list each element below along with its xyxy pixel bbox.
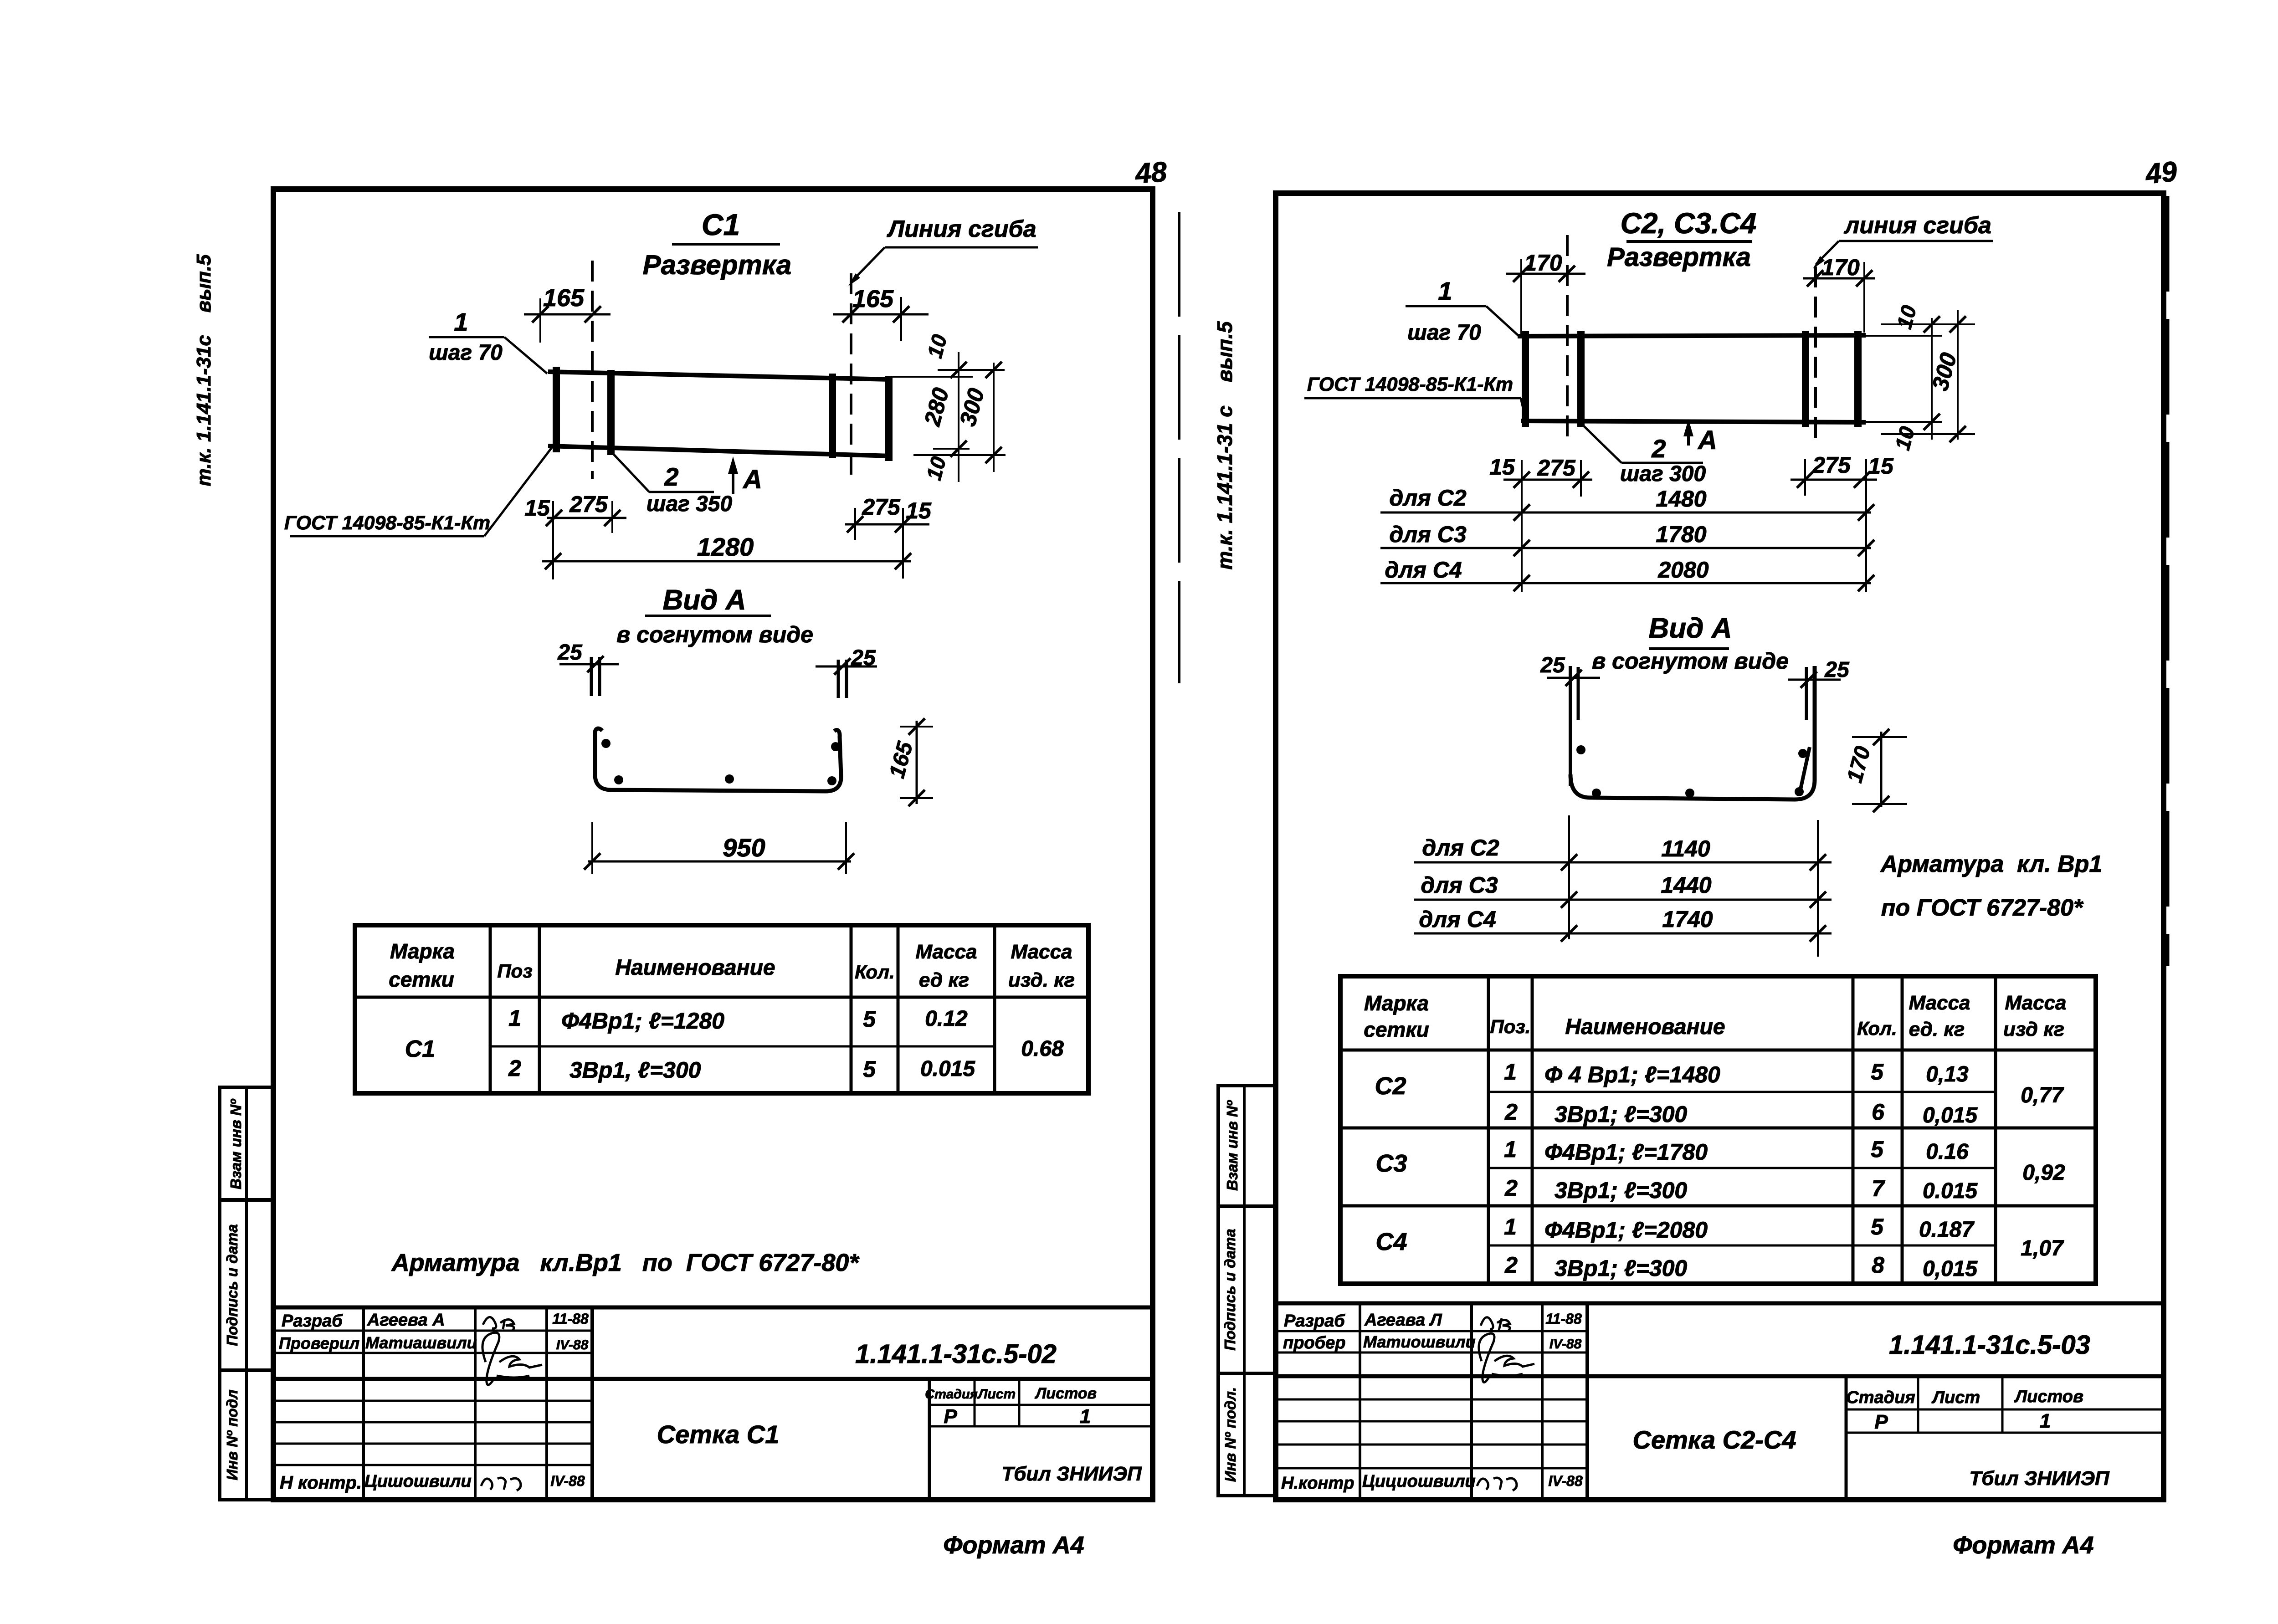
svg-text:Матиошвили: Матиошвили xyxy=(1363,1332,1476,1351)
svg-text:2: 2 xyxy=(508,1055,521,1081)
svg-text:Сетка С1: Сетка С1 xyxy=(657,1420,780,1449)
fold line left dashed xyxy=(1566,235,1569,441)
svg-text:Р: Р xyxy=(944,1405,957,1428)
svg-text:275: 275 xyxy=(862,494,901,520)
ext line left (shared with upper для dims) xyxy=(1521,460,1523,592)
sub-row dividers xyxy=(1488,1091,1996,1093)
extension line shared right xyxy=(902,508,904,579)
svg-text:2: 2 xyxy=(1504,1175,1518,1201)
fold line right (dashed) xyxy=(850,273,852,479)
signature 1 xyxy=(1481,1317,1510,1331)
svg-text:С2, С3.С4: С2, С3.С4 xyxy=(1621,207,1757,240)
mesh development: bottom chord xyxy=(1521,421,1866,422)
svg-text:0,77: 0,77 xyxy=(2021,1083,2064,1107)
svg-text:1780: 1780 xyxy=(1656,522,1706,547)
wire cross-section dots xyxy=(601,739,611,748)
svg-text:8: 8 xyxy=(1872,1252,1884,1278)
label 1 underline xyxy=(429,336,504,338)
svg-text:Масса: Масса xyxy=(2005,992,2066,1014)
svg-text:шаг 70: шаг 70 xyxy=(429,341,503,365)
line C4 bent xyxy=(1414,932,1832,935)
staff row lines xyxy=(273,1330,592,1332)
svg-text:А: А xyxy=(742,465,762,494)
svg-text:Разраб: Разраб xyxy=(282,1311,343,1331)
svg-text:25: 25 xyxy=(1824,658,1850,682)
svg-text:0.68: 0.68 xyxy=(1021,1037,1064,1061)
dim 170 bent height xyxy=(1880,732,1883,807)
svg-text:сетки: сетки xyxy=(389,968,454,991)
svg-text:1280: 1280 xyxy=(697,533,754,561)
title block top line xyxy=(273,1306,1153,1310)
ext line right short xyxy=(1804,459,1806,496)
svg-text:для С4: для С4 xyxy=(1419,907,1496,932)
view arrow A xyxy=(732,465,734,494)
cross wire (pos 2) left 2 xyxy=(607,370,615,455)
svg-text:Ф 4 Вр1; ℓ=1480: Ф 4 Вр1; ℓ=1480 xyxy=(1544,1062,1720,1087)
svg-text:0.015: 0.015 xyxy=(1923,1179,1978,1203)
margin stamp column (left of frame) xyxy=(220,1087,273,1500)
svg-text:Масса: Масса xyxy=(1011,941,1072,963)
dimension 165 left: dim line xyxy=(524,313,611,316)
leader from label 2 to mesh xyxy=(611,451,649,492)
svg-text:IV-88: IV-88 xyxy=(550,1473,585,1489)
svg-text:2: 2 xyxy=(664,462,678,491)
dim 950 line xyxy=(588,861,851,863)
ticks xyxy=(1924,316,1940,333)
title underline xyxy=(1626,240,1752,243)
svg-text:для С3: для С3 xyxy=(1421,872,1498,898)
svg-text:Линия сгиба: Линия сгиба xyxy=(886,216,1036,242)
svg-text:1140: 1140 xyxy=(1661,836,1710,861)
dim 25 right: wire stubs xyxy=(837,660,840,698)
svg-text:1740: 1740 xyxy=(1662,907,1713,932)
cross wire right 2 xyxy=(1854,331,1862,427)
svg-text:2080: 2080 xyxy=(1657,557,1708,583)
svg-text:170: 170 xyxy=(1821,255,1860,280)
table sub-row divider xyxy=(490,1045,995,1048)
svg-text:Н контр.: Н контр. xyxy=(280,1473,362,1493)
group dividers xyxy=(1340,1127,2096,1130)
svg-text:для С4: для С4 xyxy=(1385,557,1462,583)
svg-text:А: А xyxy=(1697,425,1717,455)
svg-text:170: 170 xyxy=(1842,743,1875,785)
svg-text:шаг 350: шаг 350 xyxy=(646,492,733,516)
svg-text:шаг 300: шаг 300 xyxy=(1620,462,1706,486)
leader to mesh bottom-left xyxy=(1521,398,1526,420)
svg-text:165: 165 xyxy=(885,738,918,780)
svg-text:Вид А: Вид А xyxy=(663,584,746,616)
svg-text:Агеава Л: Агеава Л xyxy=(1364,1311,1442,1330)
svg-text:Листов: Листов xyxy=(2014,1387,2083,1406)
bent mesh U-profile C2-C4: left arm doubled (hook) xyxy=(1569,666,1572,786)
svg-text:Развертка: Развертка xyxy=(1607,242,1751,272)
svg-text:Арматура кл. Вр1: Арматура кл. Вр1 xyxy=(1880,851,2103,877)
extension line 275 right short xyxy=(854,508,856,540)
fold line left (dashed) xyxy=(591,261,594,479)
svg-text:Цишошвили: Цишошвили xyxy=(364,1472,472,1491)
svg-text:0,92: 0,92 xyxy=(2022,1161,2065,1185)
svg-text:280: 280 xyxy=(919,385,954,429)
svg-text:в согнутом виде: в согнутом виде xyxy=(1592,648,1789,674)
view A underline xyxy=(645,615,771,617)
svg-text:ГОСТ 14098-85-К1-Кт: ГОСТ 14098-85-К1-Кт xyxy=(1307,374,1513,395)
svg-text:0,015: 0,015 xyxy=(1923,1103,1978,1127)
dim line 1280 xyxy=(542,560,911,563)
svg-text:3Вр1; ℓ=300: 3Вр1; ℓ=300 xyxy=(1555,1178,1687,1203)
svg-text:25: 25 xyxy=(557,640,583,665)
svg-text:Инв Nº подл: Инв Nº подл xyxy=(224,1389,241,1480)
svg-text:Сетка С2-С4: Сетка С2-С4 xyxy=(1633,1425,1796,1454)
svg-text:10: 10 xyxy=(1890,424,1919,452)
mesh C1 development: bottom chord wire xyxy=(548,446,891,456)
svg-text:49: 49 xyxy=(2143,156,2179,190)
vertical dim line 300 xyxy=(1957,310,1959,440)
svg-text:1,07: 1,07 xyxy=(2021,1236,2064,1260)
svg-text:Развертка: Развертка xyxy=(643,250,792,280)
svg-text:2: 2 xyxy=(1651,434,1666,463)
svg-text:ГОСТ 14098-85-К1-Кт: ГОСТ 14098-85-К1-Кт xyxy=(284,512,490,534)
dimension 165 right: dim line xyxy=(833,313,929,316)
линия сгиба underline xyxy=(1839,240,1993,242)
title block page 49: top line xyxy=(1276,1301,2164,1306)
svg-text:шаг 70: шаг 70 xyxy=(1407,321,1481,345)
svg-text:5: 5 xyxy=(1871,1137,1884,1162)
svg-text:11-88: 11-88 xyxy=(1545,1311,1582,1327)
svg-text:Подпись и дата: Подпись и дата xyxy=(1221,1229,1238,1351)
ext line right long (shared) xyxy=(1865,459,1867,592)
line C2 bent xyxy=(1414,861,1832,864)
svg-text:Агеева А: Агеева А xyxy=(367,1311,445,1330)
svg-text:5: 5 xyxy=(1871,1059,1884,1085)
dim line 275 left xyxy=(547,517,626,519)
mesh C2-C4 development: top chord xyxy=(1518,335,1866,336)
columns xyxy=(1359,1303,1361,1500)
svg-text:Формат А4: Формат А4 xyxy=(943,1532,1084,1559)
mesh C1 development: top chord wire xyxy=(548,372,891,379)
svg-text:15: 15 xyxy=(906,498,932,523)
view arrow A xyxy=(1687,428,1690,446)
page 49 torn edge dashed line xyxy=(2166,196,2170,966)
wire cross-section dots xyxy=(1576,745,1585,754)
signature 3 xyxy=(481,1478,521,1491)
table header line xyxy=(355,996,1088,999)
svg-text:1: 1 xyxy=(1504,1214,1517,1240)
svg-text:Матиашвили: Матиашвили xyxy=(365,1333,477,1352)
ext line 170 left xyxy=(1520,259,1522,337)
svg-text:48: 48 xyxy=(1134,156,1168,190)
svg-text:1: 1 xyxy=(1080,1405,1091,1428)
svg-text:IV-88: IV-88 xyxy=(556,1337,589,1352)
svg-text:Масса: Масса xyxy=(1909,992,1970,1014)
margin stamp column page 49 xyxy=(1218,1086,1276,1496)
dim 950: extension lines xyxy=(591,822,593,874)
leader from label 1 to mesh corner xyxy=(504,337,547,374)
title block main divider xyxy=(273,1377,1153,1381)
svg-text:Вид А: Вид А xyxy=(1649,613,1732,644)
svg-text:Тбил ЗНИИЭП: Тбил ЗНИИЭП xyxy=(1001,1463,1142,1485)
svg-text:Ф4Вр1; ℓ=1280: Ф4Вр1; ℓ=1280 xyxy=(561,1008,724,1034)
leader from label 2 xyxy=(1582,425,1621,463)
vertical dim line short xyxy=(1931,318,1933,440)
svg-text:1.141.1-31с.5-03: 1.141.1-31с.5-03 xyxy=(1889,1330,2090,1360)
staff rows xyxy=(1276,1330,1587,1332)
page 48 torn edge dashed line xyxy=(1178,212,1180,683)
svg-text:11-88: 11-88 xyxy=(552,1311,589,1327)
cross wire right 1 xyxy=(1802,331,1809,427)
svg-text:1: 1 xyxy=(1438,277,1452,305)
svg-text:в согнутом виде: в согнутом виде xyxy=(616,622,813,647)
svg-text:2: 2 xyxy=(1504,1099,1518,1125)
title C1 underline xyxy=(672,243,780,246)
cross wire (pos 2) end left 1 xyxy=(553,367,560,452)
svg-text:3Вр1, ℓ=300: 3Вр1, ℓ=300 xyxy=(569,1057,701,1083)
svg-text:165: 165 xyxy=(852,285,894,313)
dim 165 ticks xyxy=(900,726,933,727)
svg-text:С1: С1 xyxy=(405,1036,435,1062)
svg-text:С4: С4 xyxy=(1375,1228,1407,1255)
ext long line from mesh bottom xyxy=(913,454,1006,456)
svg-text:Наименование: Наименование xyxy=(615,956,775,980)
title block column lines xyxy=(362,1307,365,1500)
cross wire (pos 2) right 1 xyxy=(829,374,836,458)
svg-text:1440: 1440 xyxy=(1661,872,1711,898)
right side dims: ext from mesh top xyxy=(1866,335,1942,337)
линия сгиба underline xyxy=(885,246,1038,249)
svg-text:Поз.: Поз. xyxy=(1490,1016,1531,1037)
svg-text:0,13: 0,13 xyxy=(1926,1062,1969,1086)
svg-text:Взам инв Nº: Взам инв Nº xyxy=(1224,1100,1241,1191)
svg-text:Листов: Листов xyxy=(1034,1385,1097,1402)
svg-text:Ф4Вр1; ℓ=1780: Ф4Вр1; ℓ=1780 xyxy=(1544,1139,1708,1165)
signature 3 xyxy=(1477,1478,1517,1491)
dim 25 left: dim line xyxy=(559,663,619,666)
svg-text:5: 5 xyxy=(1871,1214,1884,1240)
signature 2 (large flourish) xyxy=(482,1332,542,1385)
dim line 275 right xyxy=(845,523,929,526)
svg-text:для С3: для С3 xyxy=(1389,522,1466,547)
svg-text:0.16: 0.16 xyxy=(1926,1140,1969,1164)
leader to mesh top-left xyxy=(1486,306,1519,336)
svg-text:165: 165 xyxy=(543,284,585,312)
svg-text:IV-88: IV-88 xyxy=(1548,1473,1583,1489)
bent mesh U-profile C1 xyxy=(595,728,841,791)
svg-text:1: 1 xyxy=(1504,1137,1517,1162)
svg-text:300: 300 xyxy=(955,385,990,429)
svg-text:Марка: Марка xyxy=(1364,991,1429,1015)
svg-text:1: 1 xyxy=(454,307,468,336)
svg-text:Арматура кл.Вр1 по ГОСТ 6: Арматура кл.Вр1 по ГОСТ 6727-80* xyxy=(391,1249,860,1276)
svg-text:Поз: Поз xyxy=(497,960,532,982)
svg-text:5: 5 xyxy=(863,1006,876,1032)
svg-text:С2: С2 xyxy=(1375,1072,1406,1100)
dim 25 right: dim line xyxy=(816,666,877,668)
cross wire left 1 xyxy=(1522,331,1529,427)
svg-text:Проверил: Проверил xyxy=(279,1334,359,1352)
ГОСТ label underline xyxy=(290,535,484,538)
page 49 frame xyxy=(1276,193,2164,1500)
extension line 275 left short xyxy=(611,501,613,533)
ext line 170 right xyxy=(1863,262,1865,333)
extension line shared by 275/1280 left xyxy=(552,501,554,579)
svg-text:IV-88: IV-88 xyxy=(1549,1337,1582,1352)
line C2 xyxy=(1380,512,1871,514)
vertical dim line 300 xyxy=(993,363,995,472)
стадия/лист columns xyxy=(928,1379,931,1500)
svg-text:Ф4Вр1; ℓ=2080: Ф4Вр1; ℓ=2080 xyxy=(1544,1217,1708,1243)
dimension 165 right: extension line xyxy=(900,297,902,341)
svg-text:Масса: Масса xyxy=(915,941,977,963)
svg-text:Лист: Лист xyxy=(977,1387,1016,1402)
line C3 xyxy=(1380,547,1871,549)
стадия/лист columns page49 xyxy=(1845,1376,1848,1500)
svg-text:Марка: Марка xyxy=(390,939,455,963)
svg-text:25: 25 xyxy=(1540,653,1565,677)
svg-text:Н.контр: Н.контр xyxy=(1281,1474,1354,1493)
svg-text:сетки: сетки xyxy=(1364,1018,1429,1041)
right side dims: ext line from mesh top xyxy=(891,376,973,378)
svg-text:Формат А4: Формат А4 xyxy=(1953,1532,2093,1559)
svg-text:0.187: 0.187 xyxy=(1919,1218,1975,1242)
svg-text:0.015: 0.015 xyxy=(920,1057,975,1081)
svg-text:ед. кг: ед. кг xyxy=(1909,1018,1965,1040)
line C4 xyxy=(1380,582,1871,584)
svg-text:0.12: 0.12 xyxy=(925,1007,968,1031)
tick line 10 top xyxy=(1881,323,1975,325)
svg-text:275: 275 xyxy=(1537,455,1576,481)
tick slashes on vertical dims xyxy=(950,362,967,378)
vertical dim line 280 xyxy=(958,352,959,482)
svg-text:2: 2 xyxy=(1504,1252,1518,1278)
signature 1 xyxy=(483,1317,514,1331)
svg-text:275: 275 xyxy=(1812,452,1851,478)
bent widths: ext lines xyxy=(1568,815,1570,939)
specification table C2-C4 xyxy=(1340,976,2096,1284)
svg-text:1.141.1-31с.5-02: 1.141.1-31с.5-02 xyxy=(855,1339,1057,1369)
cross wire left 2 xyxy=(1577,331,1585,427)
svg-text:3Вр1; ℓ=300: 3Вр1; ℓ=300 xyxy=(1555,1255,1687,1281)
svg-text:0,015: 0,015 xyxy=(1923,1257,1978,1281)
svg-text:3Вр1; ℓ=300: 3Вр1; ℓ=300 xyxy=(1555,1101,1687,1127)
svg-text:Подпись и дата: Подпись и дата xyxy=(224,1224,241,1346)
cross wire (pos 2) end right 2 xyxy=(885,376,893,461)
svg-text:Цициошвили: Цициошвили xyxy=(1362,1472,1476,1491)
right arm inner line (hook) xyxy=(1805,667,1808,720)
fold line right dashed xyxy=(1814,266,1817,441)
page 48 frame xyxy=(273,189,1153,1500)
signature 2 xyxy=(1479,1333,1534,1382)
U-profile bottom and corners xyxy=(1570,666,1815,799)
svg-text:Взам инв Nº: Взам инв Nº xyxy=(227,1098,244,1189)
label 2 underline xyxy=(649,491,714,493)
svg-text:С3: С3 xyxy=(1375,1150,1407,1177)
svg-text:т.к. 1.141.1-31с вып.5: т.к. 1.141.1-31с вып.5 xyxy=(193,254,215,487)
svg-text:линия сгиба: линия сгиба xyxy=(1843,212,1991,239)
svg-text:Наименование: Наименование xyxy=(1565,1015,1725,1039)
dimension 165 left: extension line xyxy=(539,298,541,343)
svg-text:С1: С1 xyxy=(702,208,740,241)
svg-text:Кол.: Кол. xyxy=(855,961,895,983)
leader from ГОСТ label to mesh corner xyxy=(484,446,553,536)
svg-text:пробер: пробер xyxy=(1283,1333,1346,1352)
main divider xyxy=(1276,1374,2164,1378)
svg-text:10: 10 xyxy=(922,454,951,482)
svg-text:275: 275 xyxy=(569,492,608,517)
svg-text:950: 950 xyxy=(723,833,765,862)
svg-text:Р: Р xyxy=(1874,1411,1888,1433)
svg-text:1: 1 xyxy=(2040,1410,2051,1432)
dim 165 bent height: vertical line xyxy=(916,721,918,804)
dim 25 left: wire stubs xyxy=(590,657,593,696)
tick line 10 bottom xyxy=(1881,433,1975,435)
svg-text:по ГОСТ 6727-80*: по ГОСТ 6727-80* xyxy=(1881,895,2084,921)
svg-text:для С2: для С2 xyxy=(1389,485,1466,511)
svg-text:15: 15 xyxy=(524,495,550,521)
svg-text:Стадия: Стадия xyxy=(1846,1388,1915,1407)
svg-text:изд кг: изд кг xyxy=(2003,1018,2064,1040)
svg-text:изд. кг: изд. кг xyxy=(1008,969,1075,991)
svg-text:ед кг: ед кг xyxy=(919,969,969,991)
svg-text:170: 170 xyxy=(1524,250,1562,276)
tick line 10 top xyxy=(938,369,1005,371)
tick line bottom short xyxy=(933,448,970,450)
svg-text:1: 1 xyxy=(1504,1059,1517,1085)
svg-text:Кол.: Кол. xyxy=(1857,1018,1897,1039)
header line xyxy=(1340,1049,2096,1052)
линия сгиба leader xyxy=(1816,241,1839,264)
svg-text:Разраб: Разраб xyxy=(1284,1311,1345,1331)
svg-text:1480: 1480 xyxy=(1656,486,1706,512)
svg-text:15: 15 xyxy=(1489,454,1515,480)
линия сгиба leader xyxy=(852,247,885,282)
specification table C1 xyxy=(355,925,1088,1093)
svg-text:6: 6 xyxy=(1872,1099,1885,1125)
svg-text:1: 1 xyxy=(508,1005,521,1031)
right arm inner bend xyxy=(1800,747,1810,791)
svg-text:10: 10 xyxy=(1892,302,1921,331)
svg-text:для С2: для С2 xyxy=(1422,835,1499,861)
svg-text:Лист: Лист xyxy=(1931,1388,1980,1407)
svg-text:Тбил ЗНИИЭП: Тбил ЗНИИЭП xyxy=(1969,1467,2110,1490)
svg-text:7: 7 xyxy=(1872,1176,1885,1201)
svg-text:10: 10 xyxy=(923,332,952,360)
svg-text:Стадия: Стадия xyxy=(925,1387,978,1402)
svg-text:5: 5 xyxy=(863,1056,876,1082)
svg-text:т.к. 1.141.1-31 с вып.5: т.к. 1.141.1-31 с вып.5 xyxy=(1213,321,1236,569)
svg-text:15: 15 xyxy=(1868,453,1894,479)
ext from mesh bottom xyxy=(1866,421,1942,423)
svg-text:Инв Nº подл.: Инв Nº подл. xyxy=(1222,1387,1239,1482)
line C3 bent xyxy=(1414,899,1832,901)
